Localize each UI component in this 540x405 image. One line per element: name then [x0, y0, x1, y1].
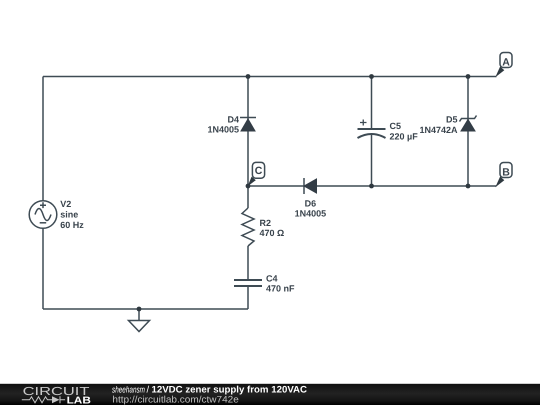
svg-text:1N4742A: 1N4742A: [419, 125, 458, 135]
node B flag: [495, 163, 512, 188]
node A flag: [495, 53, 512, 78]
junction dot ground tap: [137, 307, 142, 312]
wire C5 branch vertical upper: [371, 77, 373, 130]
ground: [129, 309, 150, 332]
svg-text:220 µF: 220 µF: [390, 132, 419, 142]
svg-text:60 Hz: 60 Hz: [60, 220, 84, 230]
junction dot node C rail / D5 branch: [466, 184, 471, 189]
wire top rail (V2+ to node A): [43, 76, 497, 78]
capacitor C5 (polarized): [358, 129, 386, 138]
svg-text:470 nF: 470 nF: [266, 284, 295, 294]
wire left vertical lower (V2 minus terminal to ground rail): [42, 228, 44, 309]
svg-text:LAB: LAB: [67, 395, 91, 405]
svg-text:R2: R2: [260, 218, 272, 228]
zener diode D5: [460, 116, 477, 132]
logo resistor-diode glyph: [22, 396, 65, 403]
svg-text:D5: D5: [446, 115, 458, 125]
svg-text:D4: D4: [227, 115, 239, 125]
wire node C horizontal rail (node C through D6 to node B): [248, 185, 497, 187]
svg-text:470 Ω: 470 Ω: [260, 228, 285, 238]
diode D4: [240, 118, 256, 132]
wire R2 to C4 vertical: [247, 246, 249, 280]
diode D6: [304, 178, 317, 194]
wire C4 to ground rail vertical: [247, 286, 249, 309]
wire D5 branch vertical: [467, 77, 469, 187]
svg-text:C5: C5: [390, 121, 402, 131]
svg-text:1N4005: 1N4005: [295, 208, 327, 218]
svg-text:C4: C4: [266, 273, 278, 283]
junction dot top rail / D4 branch: [246, 74, 251, 79]
C5 polarity plus sign: [360, 120, 367, 126]
junction dot top rail / C5 branch: [369, 74, 374, 79]
svg-text:C: C: [255, 165, 263, 177]
svg-text:V2: V2: [60, 199, 71, 209]
footer bar: [0, 384, 540, 405]
svg-text:1N4005: 1N4005: [207, 125, 239, 135]
wire D4 branch vertical (top rail through D4 to node C): [247, 77, 249, 209]
svg-text:D6: D6: [305, 199, 317, 209]
svg-text:A: A: [502, 57, 510, 69]
wire left vertical upper (top rail to V2 plus terminal): [42, 77, 44, 202]
voltage source V2: [29, 201, 57, 229]
junction dot top rail / D5 branch: [466, 74, 471, 79]
wire bottom ground rail: [43, 308, 248, 310]
junction dot node C: [246, 184, 251, 189]
resistor R2: [242, 208, 254, 246]
node C flag: [248, 162, 265, 186]
wire C5 branch vertical lower: [371, 135, 373, 186]
junction dot node C rail / C5 branch: [369, 184, 374, 189]
svg-text:sine: sine: [60, 210, 78, 220]
capacitor C4: [234, 280, 262, 286]
svg-text:http://circuitlab.com/ctw742e: http://circuitlab.com/ctw742e: [112, 394, 238, 405]
svg-text:B: B: [502, 167, 510, 179]
